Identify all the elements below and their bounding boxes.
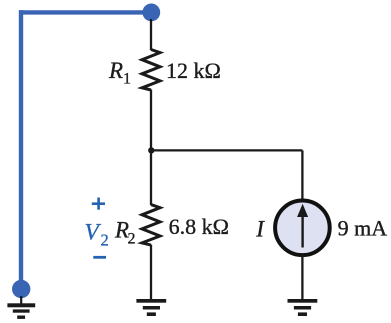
wire R2 to ground <box>150 245 152 300</box>
current source I <box>275 201 330 256</box>
wire blue top horizontal <box>21 10 151 14</box>
wire top node to R1 <box>150 19 152 50</box>
node bottom-left (blue terminal) <box>12 280 30 298</box>
resistor R2 <box>142 205 160 246</box>
svg-text:1: 1 <box>123 71 131 88</box>
svg-text:9 mA: 9 mA <box>338 215 388 240</box>
wire blue node to ground stub <box>20 296 22 304</box>
svg-text:V: V <box>85 219 102 245</box>
resistor R1 <box>142 50 160 91</box>
wire junction to R2 <box>150 150 152 205</box>
ground under blue node <box>7 303 35 319</box>
wire blue left vertical <box>19 10 23 290</box>
current source arrow <box>301 214 303 248</box>
wire R1 to junction <box>150 90 152 151</box>
label V2 plus sign <box>92 198 105 210</box>
svg-text:2: 2 <box>128 231 136 248</box>
wire to current source top <box>301 150 303 200</box>
node junction <box>148 147 154 153</box>
ground under current source <box>288 299 318 316</box>
wire current source to ground <box>301 255 303 300</box>
svg-text:R: R <box>108 58 123 83</box>
svg-text:6.8 kΩ: 6.8 kΩ <box>169 214 229 239</box>
svg-text:I: I <box>255 217 265 242</box>
label V2 minus sign <box>93 256 106 259</box>
ground under R2 <box>136 299 166 316</box>
wire junction to current source branch <box>151 149 302 151</box>
svg-text:12 kΩ: 12 kΩ <box>166 58 221 83</box>
svg-text:2: 2 <box>101 230 109 249</box>
node top (blue terminal) <box>142 4 160 22</box>
